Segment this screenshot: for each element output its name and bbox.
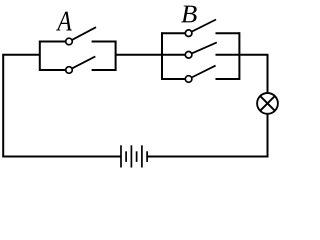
A-bank left bracket (junction bar) [39, 41, 41, 72]
switch B2 (middle switch of bank B, open) [162, 42, 239, 58]
B-bank left bracket (junction bar) [161, 32, 163, 80]
A-bank right bracket (junction bar) [115, 41, 117, 72]
wire from lamp bottom, down and along bottom to battery negative terminal [147, 114, 267, 157]
lamp L1 (circle with X) [257, 93, 278, 114]
switch A2 (bottom switch of bank A, open) [40, 56, 116, 73]
switch A1 (top switch of bank A, open) [40, 27, 116, 45]
label B [181, 6, 197, 23]
label A [56, 12, 72, 31]
switch B1 (top switch of bank B, open) [162, 20, 239, 37]
wire from A switch-bank right bracket to B switch-bank left bracket [115, 54, 162, 56]
switch B3 (bottom switch of bank B, open) [162, 66, 239, 83]
B-bank right bracket (junction bar) [238, 32, 240, 80]
wire from B switch-bank right bracket to top-right corner and down to lamp [239, 55, 268, 93]
battery (three cells) [121, 145, 147, 167]
wire from A switch-bank left bracket to left side, down and along bottom to battery positive terminal [3, 55, 121, 157]
